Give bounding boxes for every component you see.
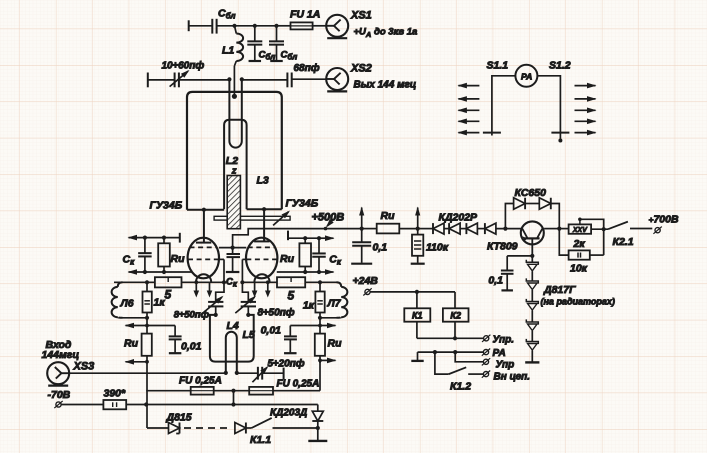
tube V1 grid lead	[218, 259, 225, 282]
svg-text:5÷20пф: 5÷20пф	[268, 358, 305, 370]
wire + bias arrow (right)	[290, 318, 336, 329]
terminal -70В	[48, 389, 104, 408]
wire Упр	[417, 335, 514, 346]
capacitor Сбл (shunt 2)	[269, 26, 297, 62]
node	[235, 371, 239, 375]
wire cathode row right	[277, 269, 335, 275]
connector XS2	[326, 63, 372, 92]
diode КД203Д	[270, 405, 327, 441]
dashed wire	[184, 427, 231, 429]
+500В feed zigzag	[233, 229, 326, 248]
label +Ua до 3кв 1а	[354, 27, 418, 40]
wire screen row left	[128, 233, 180, 243]
svg-text:Л6: Л6	[120, 298, 134, 310]
resistor 1к (right)	[303, 282, 325, 318]
node: output row left	[227, 77, 231, 81]
bypass КС650	[505, 187, 559, 229]
node	[162, 236, 166, 240]
resistor 1к (left)	[143, 282, 166, 318]
label Вых 144 мгц	[354, 80, 417, 91]
svg-text:+UА до 3кв 1а: +UА до 3кв 1а	[354, 27, 418, 40]
svg-text:5: 5	[165, 288, 172, 302]
node: anode tube V1	[202, 208, 206, 212]
wire +500В rail	[326, 228, 377, 230]
node	[145, 316, 149, 320]
variable capacitor 8÷50пф (right)	[235, 296, 294, 319]
contact ticks	[483, 132, 570, 134]
grid coil L4 (outer loop)	[210, 315, 254, 362]
node: grid V1	[222, 280, 226, 284]
svg-text:+500В: +500В	[312, 212, 345, 224]
svg-text:68пф: 68пф	[294, 62, 320, 74]
wire left stub with end bar (output row)	[148, 73, 175, 88]
svg-text:L5: L5	[243, 329, 255, 341]
resistor 5 (left)	[155, 277, 182, 301]
node	[317, 236, 321, 240]
svg-text:XS2: XS2	[350, 63, 372, 75]
resistor 110к	[411, 229, 449, 264]
svg-text:0,01: 0,01	[261, 325, 282, 337]
label ГУ34Б (V2)	[286, 198, 319, 210]
anode line left	[187, 209, 224, 211]
svg-text:FU 1А: FU 1А	[290, 9, 320, 21]
wire output row	[242, 79, 287, 81]
wire fuse row to Rи	[319, 362, 321, 391]
svg-text:L4: L4	[227, 320, 239, 332]
coil Л7	[320, 282, 347, 318]
svg-text:8÷50пф: 8÷50пф	[174, 310, 210, 321]
node base branch	[503, 227, 507, 231]
svg-text:10÷60пф: 10÷60пф	[162, 60, 205, 72]
svg-text:0,1: 0,1	[488, 275, 503, 287]
svg-text:КС650: КС650	[515, 187, 547, 199]
coil Л6	[112, 282, 147, 318]
wire link fuse row	[233, 391, 235, 405]
node base	[530, 254, 534, 258]
capacitor Ск right	[312, 238, 342, 272]
svg-text:Д817Г: Д817Г	[543, 284, 576, 296]
tube V1 anode lead	[196, 210, 211, 243]
connector XS3	[47, 361, 94, 386]
capacitor Ск left	[123, 238, 152, 272]
variable capacitor 10÷60пф	[162, 60, 230, 88]
svg-text:Д815: Д815	[166, 412, 192, 424]
wire -70В row	[126, 402, 318, 406]
node	[246, 313, 250, 317]
svg-text:S1.2: S1.2	[549, 60, 571, 72]
node + up arrow 2	[415, 207, 420, 231]
zener Д815	[166, 412, 192, 434]
capacitor Сбл (shunt 1)	[247, 26, 275, 62]
resistor Rи (rail)	[377, 210, 400, 233]
wire + bias arrow (left)	[125, 318, 176, 329]
rheostat 2к (XXV)	[569, 218, 604, 256]
RF flow arrows (left)	[457, 83, 479, 136]
node	[214, 313, 218, 317]
svg-text:0,01: 0,01	[181, 341, 202, 353]
node	[224, 371, 228, 375]
wire + arrow below (right)	[318, 356, 336, 363]
wire left stub with end bar (top anode rail)	[189, 20, 212, 31]
variable capacitor 5÷20пф	[252, 358, 304, 383]
grid bus right	[242, 280, 338, 284]
svg-text:К2: К2	[450, 310, 461, 320]
svg-text:S1.1: S1.1	[487, 60, 509, 72]
node	[303, 236, 307, 240]
wire to Д815	[147, 405, 169, 429]
switch section S1.1 / S1.2 frame	[492, 65, 563, 143]
capacitor 68пф	[287, 62, 326, 87]
svg-text:+24В: +24В	[353, 275, 379, 287]
node: top rail / L1	[232, 24, 236, 28]
svg-text:L3: L3	[257, 175, 269, 187]
input wire	[69, 372, 226, 374]
screen grid tie line	[219, 247, 246, 249]
svg-text:Rи: Rи	[171, 253, 186, 265]
label Вход 144мгц	[42, 339, 80, 361]
resistor Rи left	[158, 238, 185, 272]
svg-text:Л7: Л7	[327, 298, 342, 310]
switch К1.2	[435, 352, 530, 392]
tube V1 filament leads	[194, 280, 213, 297]
node: anode tube V2	[262, 207, 266, 211]
svg-text:К2.1: К2.1	[613, 236, 634, 248]
fuse FU 0,25A (right)	[249, 379, 319, 395]
transistor КТ809	[487, 221, 544, 256]
svg-text:КД203Д: КД203Д	[270, 408, 307, 419]
label Д817Г	[541, 284, 615, 307]
node	[318, 316, 322, 320]
svg-text:10к: 10к	[570, 263, 588, 275]
node: top rail / Сбл2	[253, 24, 257, 28]
svg-text:Rи: Rи	[280, 253, 295, 265]
labels S1.1 S1.2	[487, 60, 571, 72]
svg-text:Rи: Rи	[381, 210, 396, 222]
node	[143, 236, 147, 240]
svg-text:ГУ34Б: ГУ34Б	[150, 200, 183, 212]
resistor 390*	[103, 388, 126, 410]
svg-text:РА: РА	[521, 71, 532, 81]
svg-text:К1.1: К1.1	[250, 434, 271, 446]
connector XS1	[326, 10, 372, 39]
svg-text:1к: 1к	[303, 300, 315, 312]
label +500В with arrow	[312, 212, 345, 231]
svg-text:0,1: 0,1	[373, 242, 388, 254]
svg-text:+700В: +700В	[649, 214, 679, 226]
node collector	[544, 227, 569, 231]
resistor Rи (left lower)	[124, 326, 152, 356]
wire fuse row	[146, 390, 320, 392]
relay К2	[443, 292, 469, 338]
svg-text:К1.2: К1.2	[450, 381, 471, 393]
switch К1.1	[250, 418, 318, 446]
anode line right	[247, 208, 282, 210]
capacitor 0,01 (left)	[169, 326, 202, 354]
diode (chain)	[235, 423, 251, 434]
wire screen row right	[288, 231, 335, 241]
tube V2 filament leads	[252, 280, 271, 297]
step wire to left trimmer	[216, 282, 224, 302]
node	[231, 389, 235, 393]
coupling hairpin into cavity	[229, 80, 241, 148]
svg-text:ГУ34Б: ГУ34Б	[286, 198, 319, 210]
fuse FU 1A	[277, 9, 327, 30]
svg-text:2к: 2к	[573, 238, 586, 250]
capacitor Сбл (series blocking, top-left)	[212, 8, 235, 34]
plate tuning arrow	[273, 211, 290, 226]
tuning plate bar	[214, 216, 290, 220]
wire to К2.1	[591, 227, 608, 231]
capacitor 0,01 (right)	[261, 325, 297, 354]
node: output row right	[240, 77, 244, 81]
tube V2 anode lead	[254, 209, 270, 241]
wire rail 2	[399, 228, 433, 230]
zener stack Д817Г	[525, 256, 539, 363]
tube V2 screen grid (dashed)	[248, 246, 276, 248]
svg-text:(на радиаторах): (на радиаторах)	[541, 297, 615, 307]
svg-text:5: 5	[288, 289, 295, 303]
inductor L1	[222, 26, 243, 99]
svg-text:КТ809: КТ809	[487, 241, 518, 253]
input wire 2	[237, 372, 258, 374]
relay К1	[404, 292, 430, 338]
label КД202Р	[439, 212, 479, 224]
svg-text:Вых 144 мгц: Вых 144 мгц	[354, 80, 417, 91]
terminal +24В	[353, 275, 456, 296]
svg-text:L1: L1	[222, 45, 234, 57]
tube V1 cathode dome	[196, 274, 211, 282]
fuse FU 0,25A (left)	[179, 376, 222, 395]
wire top rail segment	[235, 25, 255, 27]
tube V2 grid lead	[242, 259, 247, 282]
svg-text:РА: РА	[493, 348, 506, 359]
resistor 5 (right)	[277, 277, 305, 302]
capacitor Ск (screen bypass)	[226, 248, 240, 289]
step wire to right trimmer	[242, 282, 248, 302]
resistor 10к branch	[559, 229, 603, 275]
svg-text:-70В: -70В	[48, 389, 71, 401]
svg-text:8÷50пф: 8÷50пф	[258, 307, 295, 319]
label z with pointer	[231, 166, 237, 180]
svg-text:Упр: Упр	[496, 360, 515, 371]
svg-text:КД202Р: КД202Р	[439, 212, 479, 224]
svg-text:Rи: Rи	[124, 338, 139, 350]
capacitor 0,1 (rail)	[351, 229, 387, 264]
svg-text:FU 0,25А: FU 0,25А	[179, 376, 222, 387]
svg-text:390*: 390*	[104, 388, 127, 400]
RF flow arrows (right)	[575, 83, 597, 136]
grid bus left	[114, 280, 223, 284]
tube V1 control grid (dashed)	[188, 258, 219, 260]
svg-text:FU 0,25А: FU 0,25А	[277, 379, 320, 390]
svg-text:Rи: Rи	[328, 338, 343, 350]
wire base row	[507, 255, 532, 257]
variable capacitor 8÷50пф (left)	[174, 296, 224, 321]
tube V2 cathode dome	[254, 274, 269, 282]
tube V2 envelope	[246, 238, 277, 279]
svg-text:1к: 1к	[154, 297, 166, 309]
svg-text:Упр.: Упр.	[493, 335, 515, 346]
svg-text:К1: К1	[412, 310, 423, 320]
anode loop L3	[187, 92, 282, 210]
label ГУ34Б (V1)	[150, 200, 183, 212]
svg-text:XS1: XS1	[350, 10, 372, 22]
svg-text:XS3: XS3	[73, 361, 95, 373]
wire top rail segment 2	[255, 25, 277, 27]
switch К2.1	[608, 222, 652, 248]
wire cathode row left	[128, 269, 193, 275]
tube V1 envelope	[188, 238, 219, 279]
chassis + РА row	[411, 348, 505, 361]
wire + arrow below	[125, 356, 149, 405]
plunger (hatched)	[227, 176, 240, 229]
node: screen junction	[231, 246, 235, 250]
inner loop L2	[224, 120, 247, 210]
resistor Rи (right lower)	[315, 326, 342, 356]
wire Упр 2	[455, 352, 514, 370]
tube V2 control grid (dashed)	[246, 258, 277, 260]
svg-text:XXV: XXV	[572, 227, 588, 234]
node: top rail / Сбл3	[274, 24, 278, 28]
node: grid V2	[240, 280, 244, 284]
capacitor 0,1 (base)	[488, 256, 513, 291]
diode chain КД202Р	[433, 223, 522, 234]
tube V1 screen grid (dashed)	[190, 246, 218, 248]
resistor Rи right	[280, 238, 311, 272]
node + up arrow	[359, 207, 364, 231]
svg-text:144мгц: 144мгц	[42, 349, 80, 361]
terminal +700В	[649, 214, 679, 234]
input coupling loop L5 (hairpin)	[226, 329, 255, 373]
svg-text:Вн цеп.: Вн цеп.	[494, 372, 531, 383]
svg-text:110к: 110к	[426, 242, 449, 254]
